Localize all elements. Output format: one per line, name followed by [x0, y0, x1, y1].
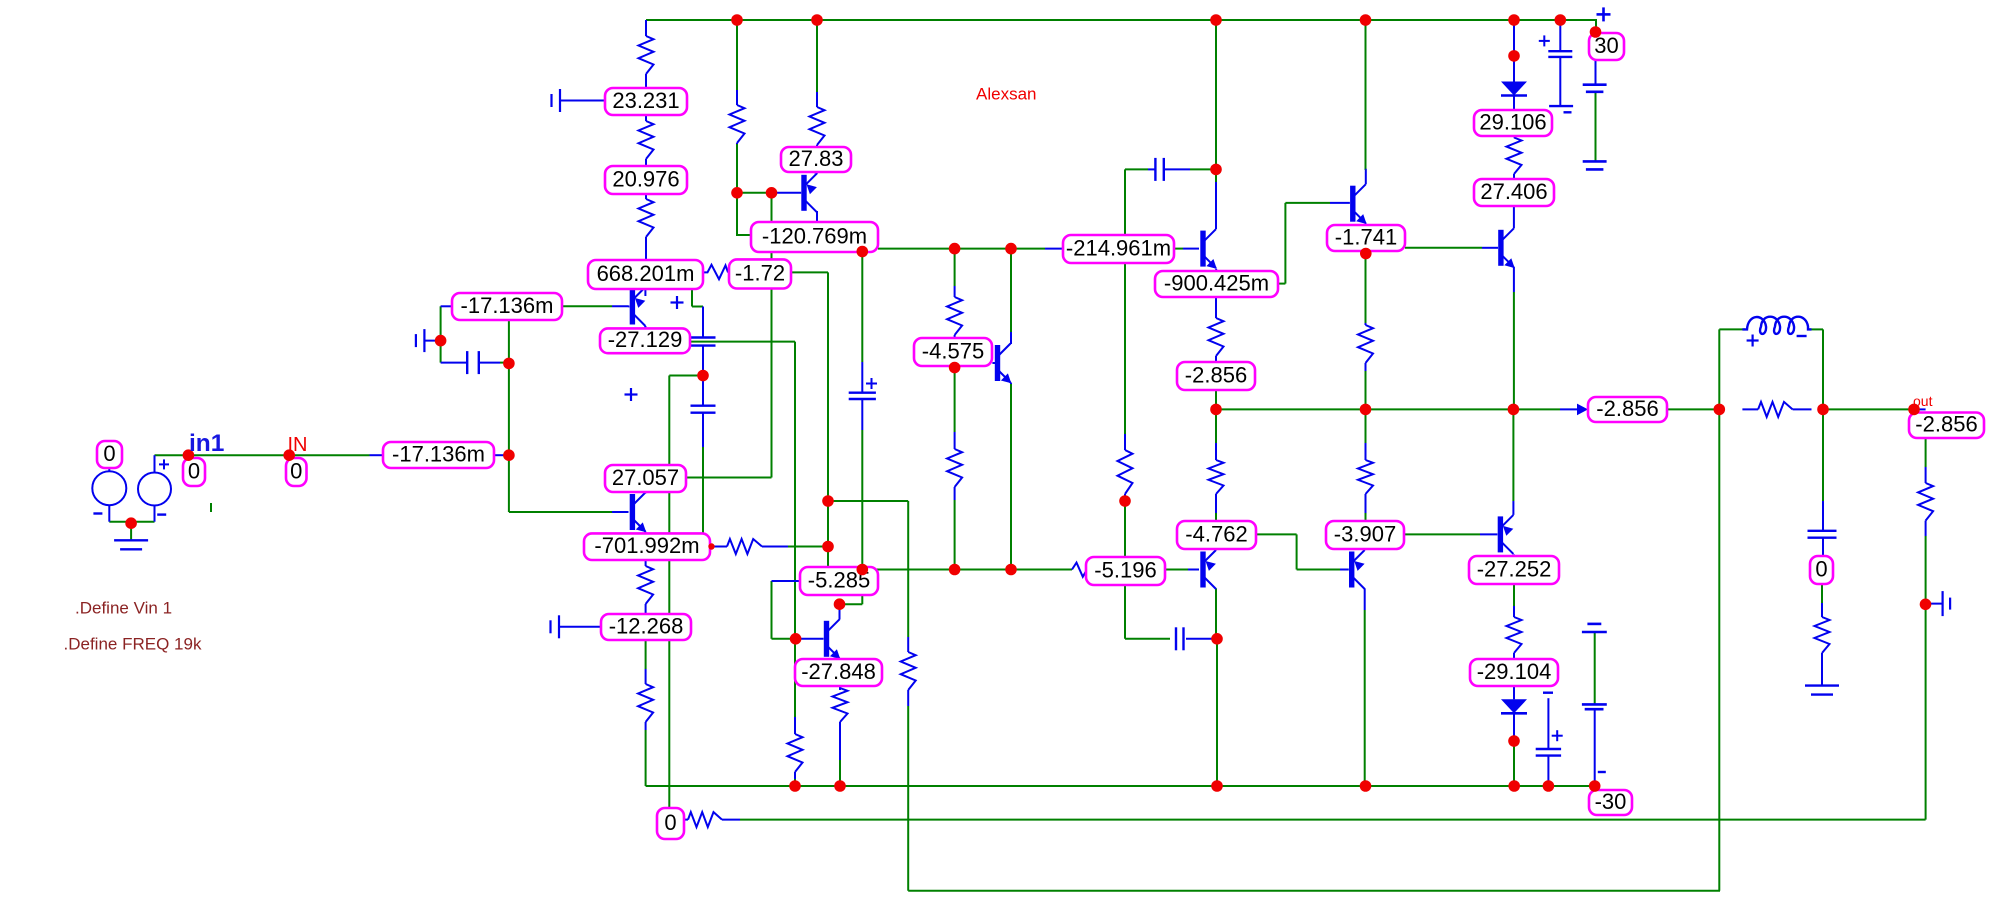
svg-text:27.406: 27.406 [1480, 179, 1547, 204]
svg-text:-2.856: -2.856 [1596, 396, 1658, 421]
svg-text:-17.136m: -17.136m [392, 441, 485, 466]
svg-text:.Define FREQ 19k: .Define FREQ 19k [64, 635, 202, 654]
svg-text:-1.741: -1.741 [1335, 224, 1397, 249]
svg-text:-4.575: -4.575 [922, 338, 984, 363]
svg-text:-2.856: -2.856 [1185, 362, 1247, 387]
svg-text:0: 0 [103, 441, 115, 466]
svg-text:-27.129: -27.129 [608, 327, 683, 352]
svg-text:0: 0 [290, 458, 302, 483]
svg-text:-12.268: -12.268 [609, 613, 684, 638]
svg-text:-27.848: -27.848 [801, 659, 876, 684]
svg-text:20.976: 20.976 [612, 166, 679, 191]
svg-text:-214.961m: -214.961m [1066, 235, 1171, 260]
svg-text:668.201m: 668.201m [597, 261, 695, 286]
svg-text:-4.762: -4.762 [1185, 521, 1247, 546]
svg-text:0: 0 [188, 458, 200, 483]
svg-text:27.83: 27.83 [788, 146, 843, 171]
svg-text:-17.136m: -17.136m [461, 293, 554, 318]
svg-text:27.057: 27.057 [612, 465, 679, 490]
svg-text:out: out [1913, 393, 1933, 409]
svg-text:Alexsan: Alexsan [976, 85, 1036, 104]
svg-text:-2.856: -2.856 [1915, 412, 1977, 437]
svg-text:29.106: 29.106 [1479, 109, 1546, 134]
svg-text:0: 0 [664, 810, 676, 835]
svg-text:-120.769m: -120.769m [762, 223, 867, 248]
svg-text:0: 0 [1815, 556, 1827, 581]
svg-text:-1.72: -1.72 [735, 260, 785, 285]
svg-text:-30: -30 [1595, 789, 1627, 814]
svg-text:-5.196: -5.196 [1094, 557, 1156, 582]
svg-text:IN: IN [288, 434, 308, 456]
svg-text:in1: in1 [189, 430, 224, 457]
svg-text:.Define Vin 1: .Define Vin 1 [75, 599, 172, 618]
svg-text:-900.425m: -900.425m [1164, 270, 1269, 295]
svg-text:-3.907: -3.907 [1334, 521, 1396, 546]
svg-text:23.231: 23.231 [612, 88, 679, 113]
svg-text:-29.104: -29.104 [1477, 659, 1552, 684]
svg-text:-701.992m: -701.992m [594, 533, 699, 558]
svg-text:-27.252: -27.252 [1477, 556, 1552, 581]
